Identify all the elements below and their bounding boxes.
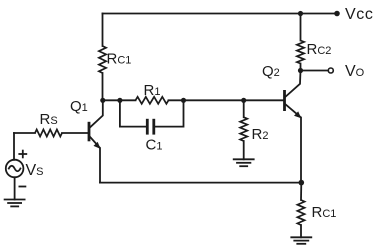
wire source top lead xyxy=(13,133,15,160)
svg-text:Vcc: Vcc xyxy=(345,6,373,23)
node junction at Q1 collector xyxy=(100,98,105,103)
transistor Q1 xyxy=(89,100,103,149)
ground below R2 xyxy=(234,159,254,166)
wire source bottom lead xyxy=(14,177,16,199)
resistor RC1 (lower) xyxy=(297,200,304,225)
polarity plus xyxy=(19,151,26,158)
wire C1 branch right leg xyxy=(154,100,184,126)
wire C1 branch left leg xyxy=(120,100,147,126)
wire RC1 lower to ground xyxy=(300,225,302,237)
wire bottom rail xyxy=(100,182,301,184)
node junction emitter bottom xyxy=(299,180,305,186)
resistor RC2 xyxy=(297,41,304,64)
wire rail to RC2 xyxy=(300,14,302,41)
polarity minus xyxy=(19,186,25,188)
wire Q1 emitter down xyxy=(99,148,101,182)
wire collector node to R1 left xyxy=(103,99,136,101)
ground below RC1 lower xyxy=(291,237,311,244)
node junction R2 xyxy=(241,98,246,103)
wire RC2 to collector node xyxy=(300,64,302,71)
wire R1 right to R2 node to Q2 base xyxy=(169,99,284,101)
transistor Q2 xyxy=(285,71,302,119)
wire RC1 to collector node xyxy=(102,73,104,100)
wire top rail xyxy=(103,13,335,15)
node junction top of RC2 xyxy=(298,11,303,16)
resistor R2 xyxy=(243,100,245,117)
node junction C1 branch left xyxy=(117,98,122,103)
wire RS to Q1 base xyxy=(62,132,89,134)
source VS (ac source) xyxy=(6,160,24,178)
resistor R1 xyxy=(136,97,169,104)
node Vo terminal (open) xyxy=(328,68,333,73)
node junction Q2 collector / output xyxy=(298,68,303,73)
wire Q2 emitter down xyxy=(300,118,302,183)
wire to output terminal xyxy=(301,70,328,72)
wire junction to RC1 lower xyxy=(300,183,302,200)
node junction C1 branch right xyxy=(181,98,186,103)
ground below VS xyxy=(5,200,25,207)
resistor RC1 (upper) xyxy=(99,46,106,73)
capacitor C1 xyxy=(147,119,154,135)
resistor RS xyxy=(14,132,35,134)
wire R2 to ground xyxy=(243,141,245,159)
node Vcc terminal xyxy=(334,11,340,17)
wire left vertical from rail to RC1 xyxy=(102,14,104,47)
